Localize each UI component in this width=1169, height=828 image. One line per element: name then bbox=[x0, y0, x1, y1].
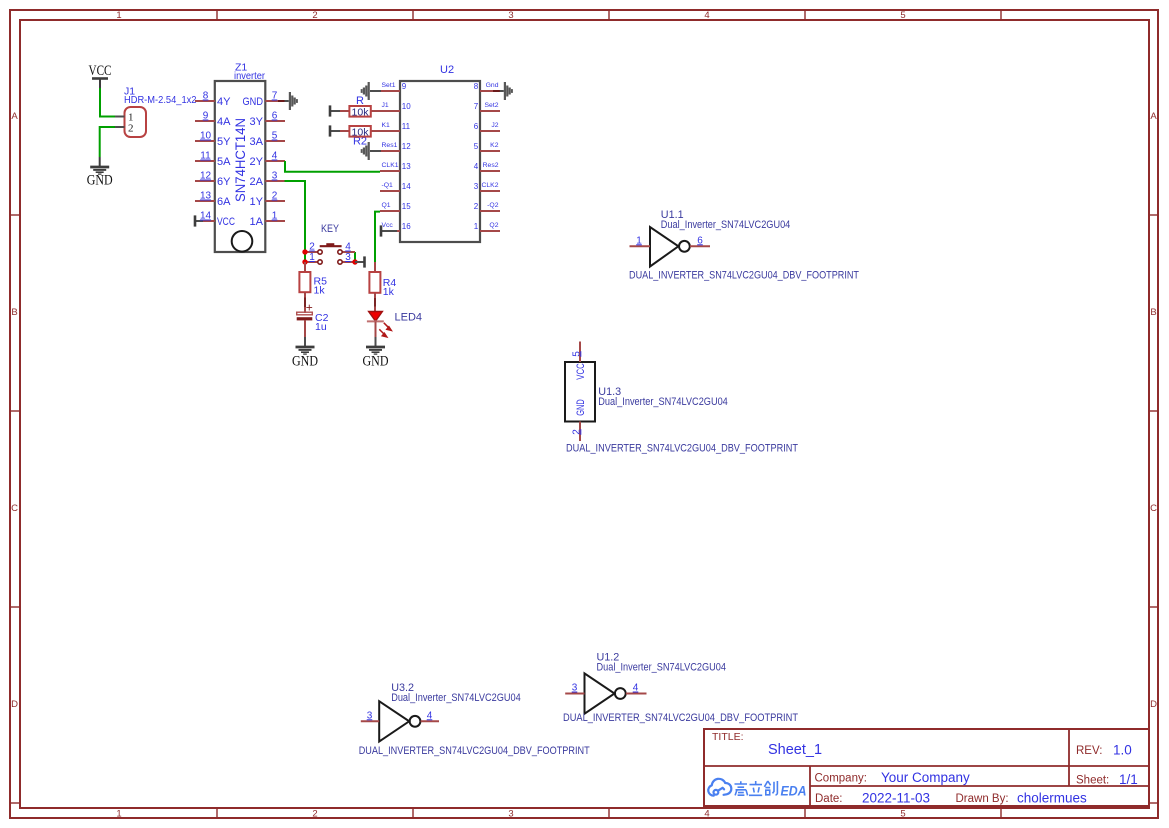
svg-text:DUAL_INVERTER_SN74LVC2GU04_DBV: DUAL_INVERTER_SN74LVC2GU04_DBV_FOOTPRINT bbox=[566, 443, 798, 455]
U2 pin 15 (Q1) bbox=[380, 202, 411, 211]
svg-text:Dual_Inverter_SN74LVC2GU04: Dual_Inverter_SN74LVC2GU04 bbox=[391, 692, 521, 704]
power bar at Z1 pin 14 bbox=[194, 215, 197, 226]
svg-text:1.0: 1.0 bbox=[1113, 743, 1132, 758]
power unit U1.3 Dual_Inverter_SN74LVC2GU04 bbox=[565, 362, 728, 422]
svg-text:1: 1 bbox=[116, 809, 121, 820]
U1.3 pin 5 bbox=[571, 342, 582, 363]
svg-text:9: 9 bbox=[203, 111, 209, 122]
svg-text:HDR-M-2.54_1x2: HDR-M-2.54_1x2 bbox=[124, 94, 197, 106]
Z1 pin 12 (6Y) bbox=[195, 171, 231, 189]
svg-text:Res2: Res2 bbox=[483, 162, 499, 169]
svg-text:11: 11 bbox=[402, 122, 411, 131]
wire Z1 2Y to U2 CLK1 bbox=[285, 161, 380, 172]
IC Z1 SN74HCT14N inverter bbox=[215, 61, 266, 252]
U3.2 pin 3 bbox=[361, 710, 379, 721]
svg-text:Sheet:: Sheet: bbox=[1076, 775, 1109, 787]
Z1 pin 14 (VCC) bbox=[195, 211, 235, 229]
svg-text:DUAL_INVERTER_SN74LVC2GU04_DBV: DUAL_INVERTER_SN74LVC2GU04_DBV_FOOTPRINT bbox=[629, 270, 859, 282]
Z1 pin 10 (5Y) bbox=[195, 131, 231, 149]
svg-text:4Y: 4Y bbox=[217, 96, 231, 108]
svg-text:GND: GND bbox=[243, 96, 264, 108]
svg-text:Res1: Res1 bbox=[382, 142, 398, 149]
svg-text:DUAL_INVERTER_SN74LVC2GU04_DBV: DUAL_INVERTER_SN74LVC2GU04_DBV_FOOTPRINT bbox=[563, 712, 798, 724]
svg-text:2Y: 2Y bbox=[250, 156, 264, 168]
svg-text:2: 2 bbox=[128, 122, 134, 134]
svg-text:B: B bbox=[1150, 307, 1156, 318]
ground GND below C2 bbox=[292, 337, 318, 369]
svg-text:4: 4 bbox=[345, 242, 351, 253]
svg-text:C: C bbox=[11, 503, 18, 514]
power port VCC bbox=[89, 63, 112, 88]
svg-text:16: 16 bbox=[402, 222, 411, 231]
svg-text:Dual_Inverter_SN74LVC2GU04: Dual_Inverter_SN74LVC2GU04 bbox=[597, 661, 727, 673]
svg-text:13: 13 bbox=[200, 191, 212, 202]
svg-text:4: 4 bbox=[272, 151, 278, 162]
svg-text:Date:: Date: bbox=[815, 793, 843, 805]
resistor R 10k bbox=[330, 95, 400, 118]
svg-text:3Y: 3Y bbox=[250, 116, 264, 128]
svg-text:B: B bbox=[11, 307, 17, 318]
U2 pin 14 (-Q1) bbox=[380, 182, 411, 191]
resistor R4 1k bbox=[369, 262, 396, 312]
svg-text:Q2: Q2 bbox=[489, 222, 498, 229]
svg-text:7: 7 bbox=[272, 91, 278, 102]
svg-text:Vcc: Vcc bbox=[382, 222, 394, 229]
svg-text:12: 12 bbox=[200, 171, 212, 182]
svg-text:TITLE:: TITLE: bbox=[712, 731, 744, 743]
ground symbol at U2 pin 8 bbox=[504, 82, 513, 100]
svg-text:Sheet_1: Sheet_1 bbox=[768, 742, 822, 758]
inverter U1.2 Dual_Inverter_SN74LVC2GU04 bbox=[585, 652, 727, 714]
U3.2 pin 4 bbox=[421, 710, 439, 721]
svg-text:2: 2 bbox=[571, 429, 582, 435]
svg-text:DUAL_INVERTER_SN74LVC2GU04_DBV: DUAL_INVERTER_SN74LVC2GU04_DBV_FOOTPRINT bbox=[359, 745, 590, 757]
svg-text:1: 1 bbox=[309, 252, 315, 263]
svg-text:SN74HCT14N: SN74HCT14N bbox=[232, 118, 248, 202]
svg-text:D: D bbox=[11, 699, 18, 710]
svg-text:5: 5 bbox=[272, 131, 278, 142]
svg-text:K1: K1 bbox=[382, 122, 391, 129]
svg-text:CLK1: CLK1 bbox=[382, 162, 399, 169]
IC U2 bbox=[400, 64, 480, 242]
svg-text:9: 9 bbox=[402, 82, 407, 91]
svg-text:A: A bbox=[1150, 111, 1157, 122]
U2 pin 11 (K1) bbox=[380, 122, 411, 131]
svg-text:11: 11 bbox=[200, 151, 211, 162]
capacitor C2 1u (polarized) bbox=[297, 300, 329, 337]
Z1 pin 13 (6A) bbox=[195, 191, 231, 209]
svg-text:1k: 1k bbox=[383, 286, 395, 298]
power bar at U2 pin 16 bbox=[380, 225, 383, 236]
svg-text:2: 2 bbox=[272, 191, 278, 202]
svg-text:1k: 1k bbox=[314, 285, 326, 297]
svg-text:5: 5 bbox=[474, 142, 479, 151]
U2 pin 1 (Q2) bbox=[474, 222, 500, 231]
KEY pin 2 bbox=[305, 242, 322, 255]
svg-text:K2: K2 bbox=[490, 142, 499, 149]
svg-text:4A: 4A bbox=[217, 116, 231, 128]
svg-text:VCC: VCC bbox=[217, 216, 235, 228]
U1.3 footprint label bbox=[566, 443, 798, 455]
svg-text:3A: 3A bbox=[250, 136, 264, 148]
connector J1 HDR-M-2.54_1x2 bbox=[124, 86, 197, 138]
svg-text:3: 3 bbox=[345, 252, 351, 263]
U2 pin 2 (-Q2) bbox=[474, 202, 500, 211]
svg-text:6: 6 bbox=[474, 122, 479, 131]
svg-text:1Y: 1Y bbox=[250, 196, 264, 208]
svg-text:1A: 1A bbox=[250, 216, 264, 228]
svg-text:J2: J2 bbox=[491, 122, 498, 129]
Z1 pin 8 (4Y) bbox=[195, 91, 231, 109]
svg-text:5Y: 5Y bbox=[217, 136, 231, 148]
svg-text:10: 10 bbox=[402, 102, 411, 111]
ground symbol at Z1 pin 7 bbox=[289, 92, 298, 110]
svg-text:5: 5 bbox=[571, 351, 582, 357]
svg-text:GND: GND bbox=[87, 173, 113, 189]
svg-text:1u: 1u bbox=[315, 321, 327, 333]
svg-text:10k: 10k bbox=[352, 106, 370, 118]
U1.3 pin 2 bbox=[571, 422, 582, 442]
svg-text:3: 3 bbox=[508, 809, 513, 820]
ground symbol at U2 pin 12 bbox=[361, 142, 381, 160]
Z1 pin 7 (GND) bbox=[243, 91, 289, 109]
Z1 pin 6 (3Y) bbox=[250, 111, 286, 129]
J1 pin 2 bbox=[115, 122, 134, 134]
svg-text:-Q1: -Q1 bbox=[382, 182, 394, 189]
ground symbol at U2 pin 9 bbox=[361, 82, 381, 100]
svg-text:3: 3 bbox=[474, 182, 479, 191]
wire Z1 2A to KEY pin 2/1 bbox=[285, 181, 306, 262]
svg-text:C: C bbox=[1150, 503, 1157, 514]
resistor R2 10k bbox=[330, 125, 400, 147]
wire KEY pin 4 to pin 3 junction bbox=[354, 252, 356, 262]
Z1 pin 2 (1Y) bbox=[250, 191, 286, 209]
svg-text:VCC: VCC bbox=[575, 363, 587, 380]
svg-text:3: 3 bbox=[272, 171, 278, 182]
svg-text:Set2: Set2 bbox=[485, 102, 499, 109]
svg-text:Dual_Inverter_SN74LVC2GU04: Dual_Inverter_SN74LVC2GU04 bbox=[661, 219, 791, 231]
svg-text:U2: U2 bbox=[440, 64, 454, 76]
svg-text:13: 13 bbox=[402, 162, 411, 171]
pushbutton KEY bbox=[320, 223, 342, 246]
svg-text:2: 2 bbox=[312, 809, 317, 820]
svg-text:Dual_Inverter_SN74LVC2GU04: Dual_Inverter_SN74LVC2GU04 bbox=[598, 396, 728, 408]
svg-text:15: 15 bbox=[402, 202, 411, 211]
wire U2 Q1 down to R4 bbox=[375, 212, 380, 262]
U1.1 footprint label bbox=[629, 270, 859, 282]
power bar at KEY pin 3 bbox=[355, 256, 365, 267]
svg-text:2A: 2A bbox=[250, 176, 264, 188]
svg-text:3: 3 bbox=[508, 10, 513, 21]
junction at KEY pin 1 bbox=[302, 259, 307, 264]
ground GND below J1 bbox=[87, 157, 113, 189]
U2 pin 3 (CLK2) bbox=[474, 182, 500, 191]
U1.2 pin 4 bbox=[626, 683, 647, 694]
svg-text:CLK2: CLK2 bbox=[481, 182, 498, 189]
JLCEDA logo bbox=[708, 779, 806, 799]
Z1 pin 9 (4A) bbox=[195, 111, 231, 129]
svg-text:7: 7 bbox=[474, 102, 479, 111]
svg-text:2: 2 bbox=[474, 202, 479, 211]
U2 pin 6 (J2) bbox=[474, 122, 500, 131]
op-amp/inverter U1.1 Dual_Inverter_SN74LVC2GU04 bbox=[650, 209, 790, 267]
Z1 pin 5 (3A) bbox=[250, 131, 286, 149]
wire J1 pin 2 to GND bbox=[100, 127, 115, 157]
svg-text:8: 8 bbox=[203, 91, 209, 102]
U1.1 pin 1 bbox=[630, 235, 651, 246]
svg-text:6A: 6A bbox=[217, 196, 231, 208]
inverter U3.2 Dual_Inverter_SN74LVC2GU04 bbox=[379, 682, 521, 742]
U2 pin 8 (Gnd) bbox=[474, 82, 504, 91]
U2 pin 5 (K2) bbox=[474, 142, 500, 151]
svg-text:VCC: VCC bbox=[89, 63, 112, 79]
svg-text:Gnd: Gnd bbox=[486, 82, 499, 89]
svg-text:3: 3 bbox=[572, 683, 578, 694]
svg-text:A: A bbox=[11, 111, 18, 122]
svg-text:LED4: LED4 bbox=[395, 311, 423, 323]
svg-text:4: 4 bbox=[704, 10, 709, 21]
svg-text:10: 10 bbox=[200, 131, 212, 142]
svg-text:Set1: Set1 bbox=[382, 82, 396, 89]
svg-text:4: 4 bbox=[633, 683, 639, 694]
svg-text:1: 1 bbox=[116, 10, 121, 21]
U3.2 footprint label bbox=[359, 745, 590, 757]
svg-text:2022-11-03: 2022-11-03 bbox=[862, 791, 930, 806]
svg-text:4: 4 bbox=[427, 710, 433, 721]
svg-text:4: 4 bbox=[474, 162, 479, 171]
svg-text:5: 5 bbox=[900, 809, 905, 820]
U1.2 pin 3 bbox=[565, 683, 584, 694]
wire VCC to J1 pin 1 bbox=[100, 88, 115, 117]
U1.2 footprint label bbox=[563, 712, 798, 724]
svg-text:14: 14 bbox=[402, 182, 411, 191]
U2 pin 7 (Set2) bbox=[474, 102, 500, 111]
svg-text:12: 12 bbox=[402, 142, 411, 151]
svg-text:-Q2: -Q2 bbox=[487, 202, 499, 209]
svg-text:10k: 10k bbox=[352, 126, 370, 138]
svg-text:cholermues: cholermues bbox=[1017, 791, 1087, 806]
svg-text:8: 8 bbox=[474, 82, 479, 91]
junction at KEY pin 2 bbox=[302, 249, 307, 254]
svg-text:D: D bbox=[1150, 699, 1157, 710]
svg-text:1: 1 bbox=[474, 222, 479, 231]
svg-text:6Y: 6Y bbox=[217, 176, 231, 188]
svg-text:2: 2 bbox=[312, 10, 317, 21]
svg-text:4: 4 bbox=[704, 809, 709, 820]
svg-text:Q1: Q1 bbox=[382, 202, 391, 209]
KEY pin 3 bbox=[338, 252, 355, 264]
U1.1 pin 6 bbox=[690, 235, 710, 246]
svg-text:1: 1 bbox=[272, 211, 278, 222]
U2 pin 4 (Res2) bbox=[474, 162, 500, 171]
svg-text:GND: GND bbox=[575, 399, 587, 416]
svg-text:1/1: 1/1 bbox=[1119, 772, 1138, 787]
U2 pin 10 (J1) bbox=[380, 102, 411, 111]
svg-text:3: 3 bbox=[367, 710, 373, 721]
svg-text:REV:: REV: bbox=[1076, 745, 1102, 757]
svg-text:5A: 5A bbox=[217, 156, 231, 168]
svg-text:6: 6 bbox=[272, 111, 278, 122]
LED LED4 bbox=[367, 311, 422, 337]
svg-text:Drawn By:: Drawn By: bbox=[956, 793, 1009, 805]
svg-text:2: 2 bbox=[309, 242, 315, 253]
svg-text:Company:: Company: bbox=[815, 773, 867, 785]
title block bbox=[704, 729, 1149, 806]
Z1 pin 1 (1A) bbox=[250, 211, 286, 229]
resistor R5 1k bbox=[299, 262, 327, 313]
U2 pin 12 (Res1) bbox=[380, 142, 411, 151]
U2 pin 9 (Set1) bbox=[380, 82, 407, 91]
J1 pin 1 bbox=[115, 111, 134, 123]
KEY pin 4 bbox=[338, 242, 355, 255]
Z1 pin 4 (2Y) bbox=[250, 151, 286, 169]
svg-text:6: 6 bbox=[697, 235, 703, 246]
svg-text:5: 5 bbox=[900, 10, 905, 21]
junction at KEY pin 3 bbox=[352, 259, 357, 264]
svg-text:1: 1 bbox=[636, 235, 642, 246]
svg-text:KEY: KEY bbox=[321, 223, 340, 235]
U2 pin 16 (Vcc) bbox=[381, 222, 411, 231]
svg-text:J1: J1 bbox=[382, 102, 389, 109]
KEY pin 1 bbox=[305, 252, 322, 264]
svg-text:14: 14 bbox=[200, 211, 212, 222]
Z1 pin 3 (2A) bbox=[250, 171, 286, 189]
ground GND below LED4 bbox=[363, 337, 389, 369]
svg-text:EDA: EDA bbox=[781, 782, 807, 798]
svg-text:Your Company: Your Company bbox=[881, 770, 970, 785]
Z1 pin 11 (5A) bbox=[195, 151, 231, 169]
svg-text:GND: GND bbox=[292, 353, 318, 369]
svg-text:GND: GND bbox=[363, 353, 389, 369]
U2 pin 13 (CLK1) bbox=[380, 162, 411, 171]
